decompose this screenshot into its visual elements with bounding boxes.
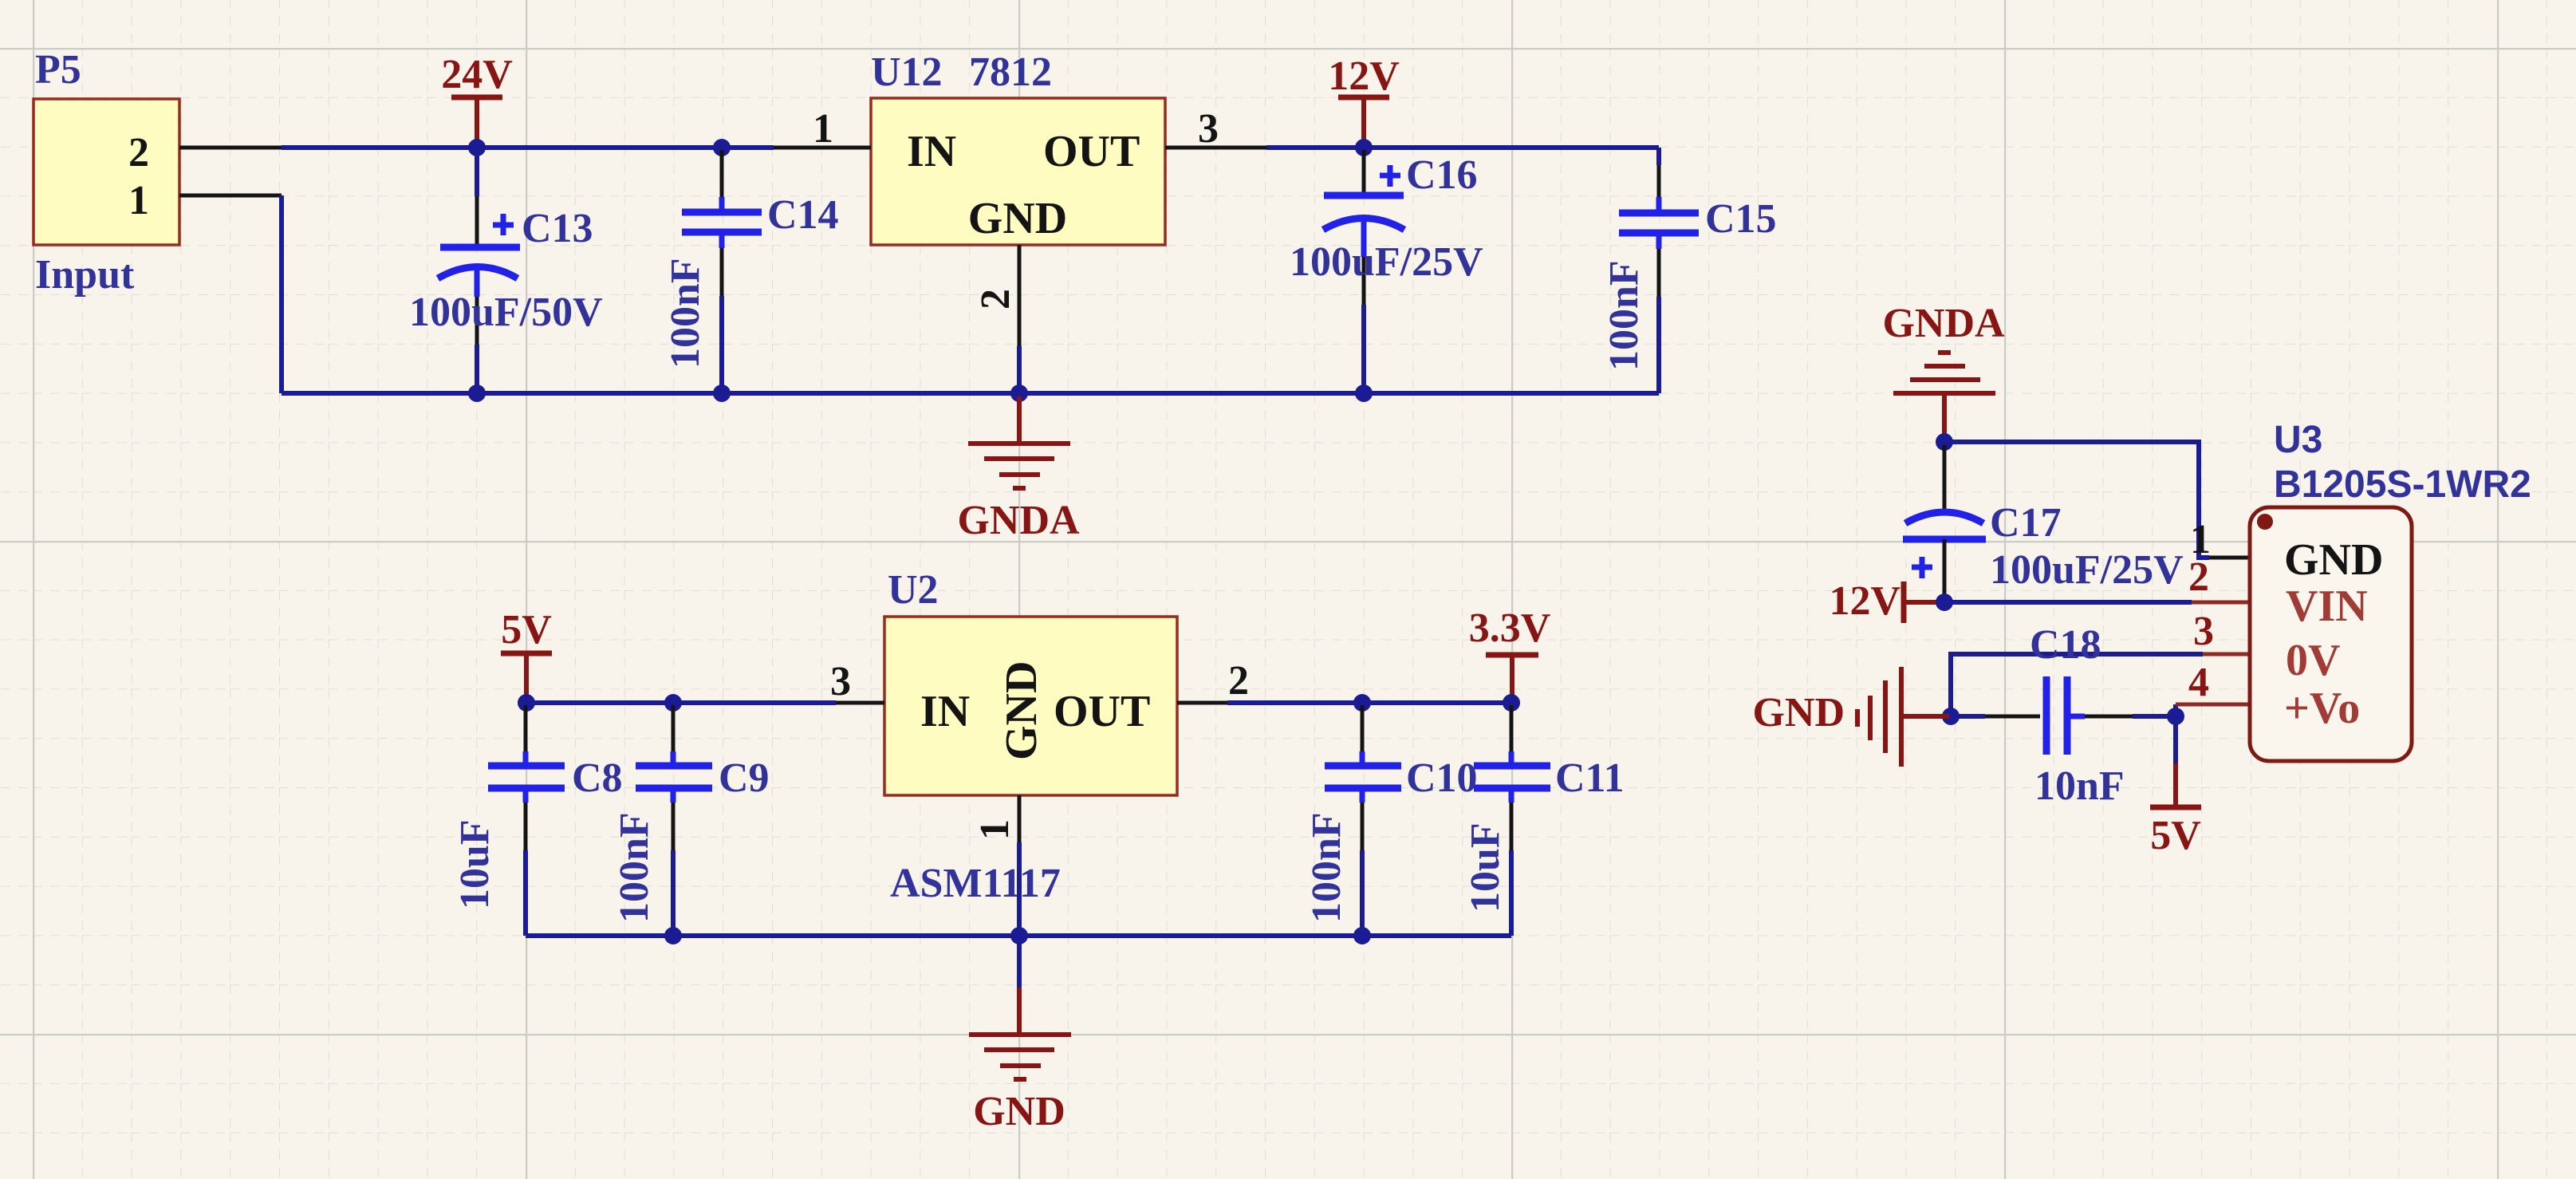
capacitor C9 plates [636,763,712,770]
node U12 GND junction [1010,384,1028,402]
svg-text:C18: C18 [2030,622,2101,668]
svg-text:100nF: 100nF [1601,260,1647,371]
capacitor C10 lead top [1361,705,1365,751]
capacitor C8 plates [488,763,565,770]
svg-text:IN: IN [920,687,970,736]
svg-text:10nF: 10nF [2034,763,2125,809]
connector P5 body [33,99,179,245]
svg-text:C8: C8 [572,755,623,801]
U3 pin 1 [2209,556,2250,560]
capacitor C17 straight plate (bottom) [1903,536,1986,543]
wire 5V rail to U2 IN [526,700,836,705]
svg-text:100nF: 100nF [612,812,657,923]
svg-text:3: 3 [2193,609,2214,654]
svg-text:Input: Input [35,252,135,298]
U3 pin 3 [2203,653,2250,657]
capacitor C14 plates [682,209,762,216]
svg-text:4: 4 [2188,660,2209,705]
wire junction up to pin4 row [2173,704,2178,716]
power port 5V stem [524,653,529,701]
wire junction down to 5V port [2173,716,2178,763]
capacitor C9 lead top [672,705,676,751]
svg-text:2: 2 [1228,658,1249,704]
capacitor C15 lead top [1656,148,1661,165]
svg-text:GND: GND [968,194,1067,243]
U3 polarity dot [2257,514,2273,530]
node C16 bottom junction [1355,384,1373,402]
node U2 GND junction [1010,927,1028,944]
power port 3.3V bar [1486,653,1538,658]
capacitor C14 lead top [720,150,724,197]
capacitor C15 lead bottom [1656,233,1662,249]
svg-text:U12: U12 [871,49,943,95]
svg-text:2: 2 [128,130,149,175]
node 24V junction [468,139,486,156]
power port 3.3V stem [1510,655,1514,701]
svg-text:12V: 12V [1829,578,1900,624]
svg-text:2: 2 [2188,554,2209,600]
P5 pin 2 [179,146,282,150]
svg-text:GND: GND [997,661,1046,760]
ground GND stem under U2 [1017,939,1022,988]
svg-text:OUT: OUT [1043,127,1140,176]
svg-text:C9: C9 [719,755,770,801]
svg-text:C14: C14 [767,192,839,238]
svg-text:C10: C10 [1406,755,1478,801]
power port 5V bar [501,651,552,657]
svg-text:VIN: VIN [2286,582,2368,631]
capacitor C13 bottom arc plate [438,267,518,279]
svg-text:C11: C11 [1555,755,1625,801]
svg-text:5V: 5V [2150,813,2201,858]
svg-text:ASM1117: ASM1117 [890,861,1061,906]
node C10 top junction [1353,694,1371,712]
node 3.3V junction [1503,694,1520,712]
wire U2 OUT to 3.3V rail [1227,700,1511,705]
svg-text:100uF/25V: 100uF/25V [1990,547,2184,593]
capacitor C18 lead left [1951,714,1985,719]
power port 24V bar [451,95,502,101]
wire 12V junction to U3 pin2 [1944,600,2192,605]
svg-text:100uF/25V: 100uF/25V [1290,239,1483,285]
svg-text:5V: 5V [501,607,552,653]
wire P5 pin1 down to bottom rail [279,195,284,393]
regulator U12 body [871,98,1165,245]
ground GND bars under U2 [969,1035,1071,1079]
capacitor C8 lead top [524,705,528,751]
svg-text:3: 3 [830,659,851,704]
svg-text:100nF: 100nF [1304,812,1349,923]
wire U2 pin1 to GND rail [1017,842,1022,936]
capacitor C13 lead top [475,148,479,196]
node C9 top junction [664,694,682,712]
node C18 left junction [1942,708,1960,725]
power port 5V (right) bar [2150,805,2201,810]
svg-text:3.3V: 3.3V [1469,605,1551,651]
svg-text:1: 1 [128,178,149,223]
U2 pin 1 [1018,795,1022,842]
svg-text:U2: U2 [888,567,939,613]
svg-text:100nF: 100nF [663,258,708,369]
svg-text:GNDA: GNDA [957,498,1080,543]
U12 pin 1 [774,146,871,150]
svg-text:0V: 0V [2286,636,2340,685]
svg-text:2: 2 [973,289,1018,310]
node 5V junction [518,694,535,712]
power port 5V (right) stem [2173,763,2178,807]
capacitor C9 lead bottom [671,788,676,802]
power port 12V (right) bar [1901,582,1907,623]
svg-text:GND: GND [1752,690,1845,735]
capacitor C18 lead right [2067,714,2085,720]
node 12V junction [1355,139,1373,156]
capacitor C11 lead top [1510,705,1514,751]
U12 pin 3 [1165,146,1266,150]
U2 pin 3 [836,701,884,705]
capacitor C15 plates [1619,210,1699,217]
power port 12V (right) stem [1904,600,1943,605]
svg-text:P5: P5 [35,47,81,93]
U12 pin 2 [1018,245,1022,346]
capacitor C16 lead bottom [1361,220,1367,257]
svg-text:OUT: OUT [1054,687,1150,736]
svg-text:3: 3 [1198,106,1219,152]
svg-text:+Vo: +Vo [2284,684,2360,733]
wire bottom rail (GNDA net) [282,391,1659,396]
ground GNDA stem [1017,396,1022,444]
node 12V/C17 junction [1936,593,1953,611]
svg-text:GNDA: GNDA [1882,301,2005,346]
node U3 pin4 junction [2167,708,2184,725]
node C10 bottom junction [1353,927,1371,944]
wire top rail left (P5 to U12 IN) [282,145,774,150]
wire U12 pin2 to GNDA [1017,346,1022,393]
svg-text:U3: U3 [2274,419,2322,461]
ground GNDA symbol (pointing up) [1893,353,1995,393]
U2 pin 2 [1177,701,1227,705]
svg-text:C17: C17 [1990,500,2062,546]
node C14 top junction [713,139,731,156]
capacitor C18 plates (vertical) [2043,676,2050,755]
U3 pin 2 [2192,601,2250,605]
svg-text:12V: 12V [1328,53,1400,99]
node GNDA junction (right) [1936,433,1953,451]
capacitor C17 plus sign [1912,557,1932,578]
capacitor C16 lead top [1362,150,1366,194]
node C13 bottom junction [468,384,486,402]
capacitor C13 plus sign [493,214,514,235]
capacitor C17 lead top [1943,445,1947,512]
capacitor C10 plates [1325,763,1401,770]
svg-text:7812: 7812 [969,49,1052,95]
power port 12V stem [1361,97,1366,146]
wire bottom GND rail [526,933,1511,938]
capacitor C10 lead bottom [1360,788,1365,802]
capacitor C16 bottom arc plate [1323,219,1404,231]
svg-text:10uF: 10uF [1463,822,1508,913]
svg-text:B1205S-1WR2: B1205S-1WR2 [2274,463,2531,506]
capacitor C13 lead bottom [475,269,480,297]
capacitor C17 lead bottom [1943,539,1947,601]
svg-text:10uF: 10uF [452,819,498,909]
svg-text:C15: C15 [1705,196,1777,242]
power port 12V bar [1338,95,1389,101]
svg-text:1: 1 [813,106,833,152]
ground GNDA stem (right) [1942,393,1947,440]
capacitor C11 lead bottom [1509,788,1514,802]
capacitor C11 plates [1474,763,1550,770]
svg-text:GND: GND [2284,535,2383,585]
capacitor C13 top plate [440,244,520,251]
svg-text:1: 1 [972,819,1018,840]
svg-text:24V: 24V [441,52,513,97]
converter U3 body [2250,507,2412,761]
power port GND bars [1857,667,1901,767]
capacitor C17 arc plate (top) [1905,512,1983,523]
U3 pin 4 [2176,703,2250,707]
capacitor C16 top plate [1324,192,1404,199]
regulator U2 body [884,617,1177,795]
capacitor C16 plus sign [1380,165,1400,187]
wire U3 pin3 to C18 left node [1951,654,2203,715]
capacitor C14 lead bottom [719,232,725,248]
ground GNDA bars [968,444,1070,488]
wire GNDA junction to U3 pin1 [1944,442,2209,558]
node C9 bottom junction [664,927,682,944]
power port 24V stem [475,97,479,146]
capacitor C8 lead bottom [523,788,529,802]
svg-text:GND: GND [973,1089,1065,1134]
svg-text:C16: C16 [1406,152,1478,198]
wire top rail right (U12 OUT to C15) [1266,145,1659,150]
svg-text:100uF/50V: 100uF/50V [409,290,603,335]
node C14 bottom junction [713,384,731,402]
power port GND stem [1901,714,1949,719]
svg-text:IN: IN [907,127,956,176]
svg-text:C13: C13 [522,206,593,251]
P5 pin 1 [179,194,282,198]
